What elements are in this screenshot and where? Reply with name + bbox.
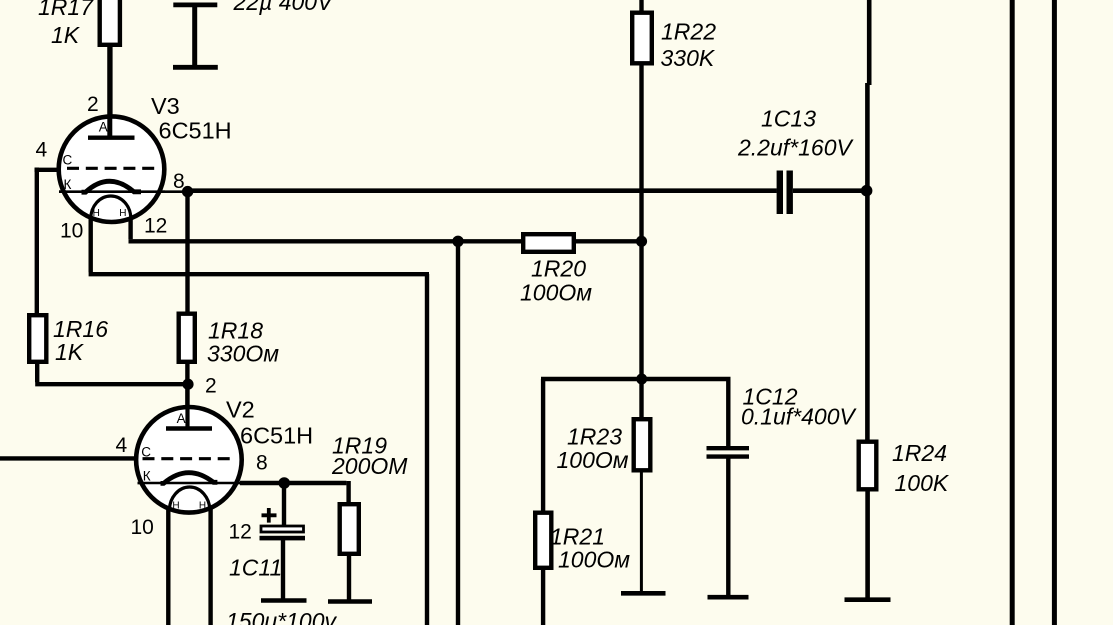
svg-text:1R24: 1R24	[892, 440, 947, 466]
svg-text:A: A	[99, 119, 108, 134]
svg-text:Н: Н	[119, 208, 126, 219]
svg-text:0.1uf*400V: 0.1uf*400V	[741, 404, 857, 430]
svg-text:1C11: 1C11	[229, 555, 282, 581]
svg-text:150u*100v: 150u*100v	[226, 608, 337, 625]
svg-text:1R23: 1R23	[567, 424, 622, 450]
svg-text:V2: V2	[226, 397, 255, 423]
svg-text:1K: 1K	[55, 339, 85, 365]
svg-text:100Ом: 100Ом	[520, 280, 592, 306]
svg-text:100K: 100K	[895, 470, 950, 496]
svg-text:6С51Н: 6С51Н	[240, 423, 313, 449]
svg-text:1R17: 1R17	[38, 0, 94, 20]
svg-text:12: 12	[229, 521, 252, 544]
svg-text:6С51Н: 6С51Н	[159, 118, 232, 144]
svg-text:22µ 400V: 22µ 400V	[233, 0, 336, 15]
svg-text:100Ом: 100Ом	[557, 447, 629, 473]
svg-text:C: C	[141, 445, 151, 460]
svg-text:12: 12	[144, 215, 167, 238]
svg-text:8: 8	[173, 170, 185, 193]
svg-text:2: 2	[87, 93, 99, 116]
svg-text:4: 4	[116, 434, 128, 457]
svg-text:330Ом: 330Ом	[207, 341, 279, 367]
svg-text:10: 10	[131, 516, 154, 539]
svg-text:Н: Н	[93, 208, 100, 219]
svg-text:К: К	[143, 468, 151, 483]
svg-text:1R20: 1R20	[531, 256, 586, 282]
svg-text:Н: Н	[199, 500, 206, 511]
svg-text:330K: 330K	[661, 45, 716, 71]
svg-text:10: 10	[60, 220, 83, 243]
svg-text:V3: V3	[151, 93, 180, 119]
svg-text:Н: Н	[172, 500, 179, 511]
svg-text:К: К	[64, 177, 72, 192]
svg-text:2.2uf*160V: 2.2uf*160V	[737, 135, 854, 161]
svg-text:2: 2	[205, 375, 217, 398]
svg-text:1K: 1K	[51, 22, 81, 48]
svg-text:1R22: 1R22	[661, 19, 716, 45]
svg-text:100Ом: 100Ом	[558, 547, 630, 573]
svg-text:200ОМ: 200ОМ	[331, 453, 408, 479]
svg-text:4: 4	[36, 139, 48, 162]
svg-text:C: C	[63, 152, 73, 167]
svg-text:A: A	[177, 411, 186, 426]
svg-text:1C13: 1C13	[761, 106, 816, 132]
svg-text:8: 8	[256, 452, 268, 475]
